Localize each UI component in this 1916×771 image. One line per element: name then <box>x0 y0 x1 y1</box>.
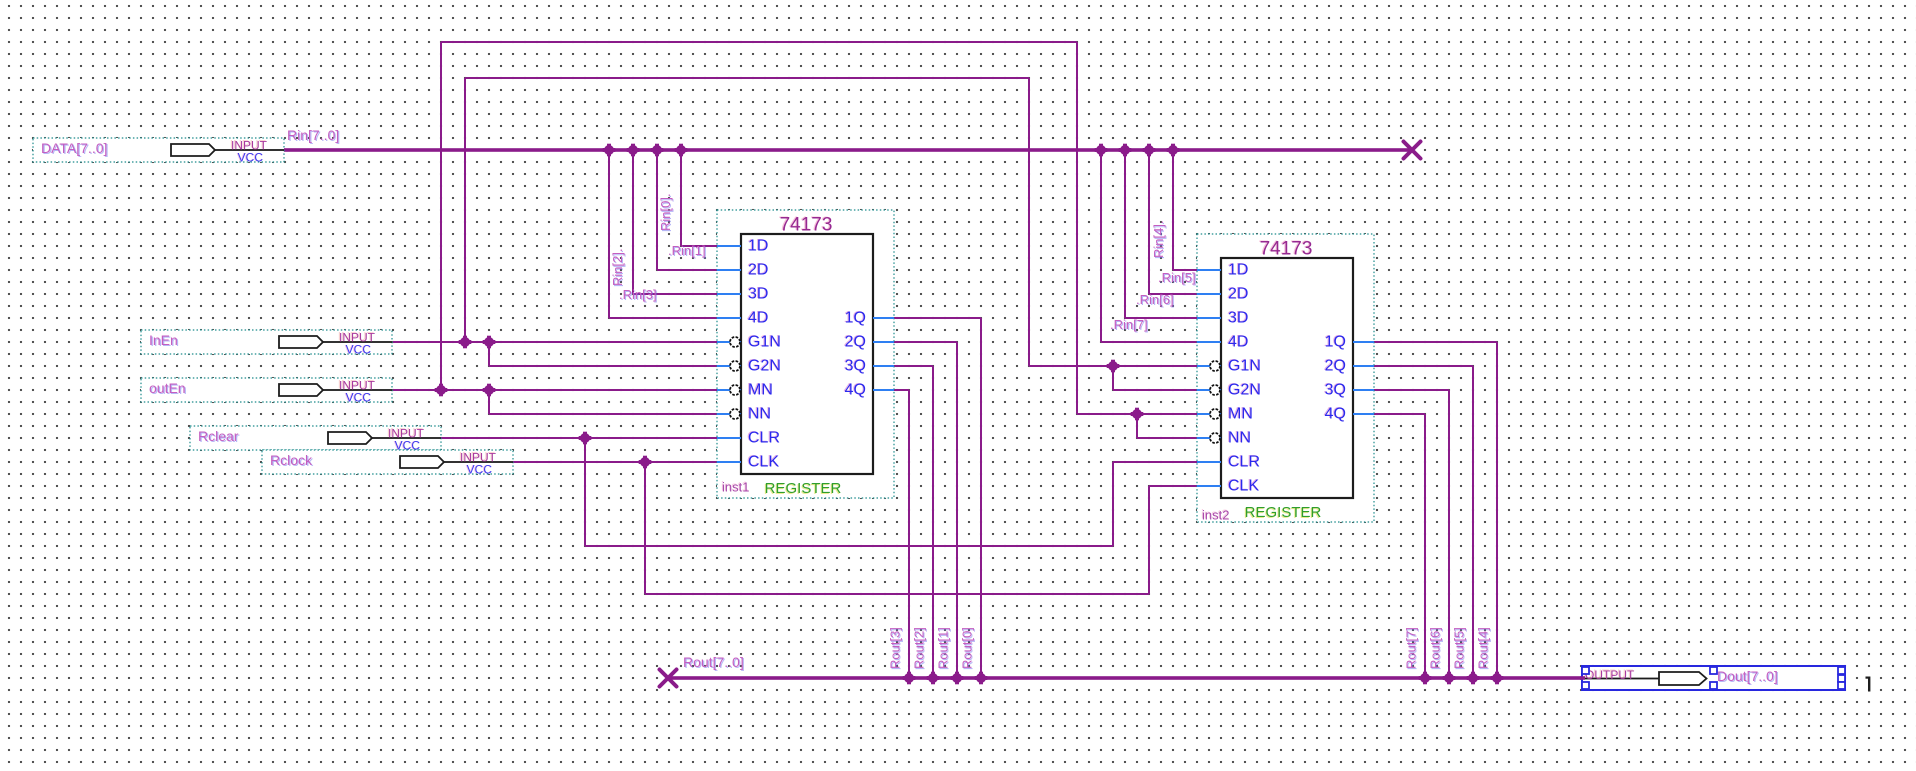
junction on Rout bus at x=957 <box>951 672 964 685</box>
dangling-bus X marker on Rin bus right end <box>1404 142 1421 159</box>
register U-inst1 74173 symbol boundary <box>717 210 894 498</box>
junction on Rin bus at x=657 <box>651 144 664 157</box>
junction on Rin bus at x=1101 <box>1095 144 1108 157</box>
register inst1 body <box>741 234 873 474</box>
wire label .Rin[6] <box>1136 292 1175 308</box>
svg-text:Rclear: Rclear <box>198 428 239 444</box>
bus name label Rout[7..0] <box>683 654 745 671</box>
register inst2 title 74173 <box>1258 238 1312 260</box>
svg-text:4Q: 4Q <box>845 382 866 399</box>
svg-text:outEn: outEn <box>149 380 186 396</box>
register inst1 pin 4Q stub <box>873 389 894 391</box>
junction on Rin bus at x=681 <box>675 144 688 157</box>
register inst1 pin label G2N <box>747 357 781 375</box>
register inst2 pin label 4Q <box>1324 405 1346 423</box>
junction on Rin bus at x=1125 <box>1119 144 1132 157</box>
register inst1 pin label CLK <box>747 453 780 471</box>
svg-text:Rout[5]: Rout[5] <box>1452 627 1467 669</box>
wire branch to reg2 G2N <box>1112 366 1197 391</box>
wire Rclock to reg1 CLK <box>512 461 717 463</box>
svg-text:VCC: VCC <box>238 151 264 165</box>
svg-text:.Rin[3]: .Rin[3] <box>619 287 657 302</box>
wire net A: outEn to reg2 MN, top route <box>440 41 1078 414</box>
register inst1 pin 3D stub <box>717 293 741 295</box>
junction at (441,390) <box>435 384 448 397</box>
svg-text:inst2: inst2 <box>1202 508 1229 523</box>
svg-text:REGISTER: REGISTER <box>765 480 842 497</box>
svg-text:Rout[2]: Rout[2] <box>912 627 927 669</box>
register inst2 pin 2D stub <box>1197 293 1221 295</box>
register inst2 type label REGISTER <box>1244 504 1322 522</box>
svg-text:DATA[7..0]: DATA[7..0] <box>41 140 107 156</box>
svg-text:CLR: CLR <box>1228 454 1260 471</box>
register inst2 instance name inst2 <box>1201 507 1229 523</box>
register inst2 body <box>1221 258 1353 498</box>
svg-text:.Rin[7]: .Rin[7] <box>1110 317 1148 332</box>
wire reg2 G1N horizontal <box>1029 365 1197 367</box>
svg-text:MN: MN <box>1228 406 1253 423</box>
register inst1 pin label 3D <box>747 285 769 303</box>
wire Rout[0] reg1 1Q to bus <box>873 317 982 678</box>
register inst1 pin CLK stub <box>717 461 741 463</box>
register inst2 pin label 2D <box>1227 285 1249 303</box>
svg-text:CLK: CLK <box>748 454 779 471</box>
register inst1 pin label 2Q <box>844 333 866 351</box>
svg-text:Rout[7..0]: Rout[7..0] <box>683 654 744 670</box>
junction on Rout bus at x=1449 <box>1443 672 1456 685</box>
register inst2 pin label 2Q <box>1324 357 1346 375</box>
junction at (585,438) <box>579 432 592 445</box>
wire Rout[3] reg1 4Q to bus <box>873 389 910 678</box>
register inst1 pin 3Q stub <box>873 365 894 367</box>
svg-text:VCC: VCC <box>467 463 493 477</box>
junction on Rin bus at x=1149 <box>1143 144 1156 157</box>
svg-text:G1N: G1N <box>1228 358 1261 375</box>
junction on Rin bus at x=633 <box>627 144 640 157</box>
register inst1 pin label 4D <box>747 309 769 327</box>
svg-text:3D: 3D <box>748 286 768 303</box>
svg-text:1Q: 1Q <box>845 310 866 327</box>
svg-text:CLR: CLR <box>748 430 780 447</box>
input pin InEn <box>141 330 392 357</box>
wire label Rout[5] rotated <box>1452 627 1468 670</box>
svg-text:2D: 2D <box>748 262 768 279</box>
svg-text:Rout[3]: Rout[3] <box>888 627 903 669</box>
input pin Rclock <box>262 450 513 477</box>
wire outEn to reg1 MN <box>393 389 717 391</box>
wire label Rin[4]. rotated <box>1151 220 1167 259</box>
svg-text:Rout[0]: Rout[0] <box>960 627 975 669</box>
wire Rclear to reg1 CLR <box>440 437 717 439</box>
svg-text:InEn: InEn <box>149 332 178 348</box>
wire net B: InEn to reg2 G1N, top route <box>464 77 1030 366</box>
wire Rclear to reg2 CLR route <box>584 438 1197 547</box>
svg-text:74173: 74173 <box>780 215 833 236</box>
register inst1 pin NN stub <box>717 409 741 419</box>
wire label Rout[3] rotated <box>888 627 904 670</box>
wire branch to reg2 NN <box>1136 414 1197 439</box>
wire Rout[4] reg2 1Q to bus <box>1353 341 1498 678</box>
wire label .Rin[7] <box>1110 317 1149 333</box>
register inst2 pin label G2N <box>1227 381 1261 399</box>
input pin DATA[7..0] <box>33 138 284 165</box>
register inst2 pin CLR stub <box>1197 461 1221 463</box>
wire Rout[7] reg2 4Q to bus <box>1353 413 1426 678</box>
wire Rclock to reg2 CLK route <box>644 462 1197 595</box>
output pin label OUTPUT <box>1584 667 1635 682</box>
register inst1 pin 1Q stub <box>873 317 894 319</box>
output pin Dout[7..0] (selected) <box>1582 666 1845 690</box>
wire Rin[0] bus to reg1 2D <box>656 150 717 271</box>
wire Rout[5] reg2 2Q to bus <box>1353 365 1474 678</box>
register inst1 pin G1N stub <box>717 337 741 347</box>
register inst2 pin G1N stub <box>1197 361 1221 371</box>
wire Rout[2] reg1 3Q to bus <box>873 365 934 678</box>
register inst1 title 74173 <box>778 214 832 236</box>
junction at (645,462) <box>639 456 652 469</box>
register inst1 pin label 1Q <box>844 309 866 327</box>
svg-text:4Q: 4Q <box>1325 406 1346 423</box>
svg-text:2Q: 2Q <box>845 334 866 351</box>
register inst2 pin label G1N <box>1227 357 1261 375</box>
wire Rin[3] bus to reg1 3D <box>632 150 717 295</box>
wire branch to reg1 G2N <box>488 342 717 367</box>
svg-text:74173: 74173 <box>1260 239 1313 260</box>
register inst1 pin label MN <box>747 381 773 399</box>
svg-text:VCC: VCC <box>346 343 372 357</box>
svg-text:1Q: 1Q <box>1325 334 1346 351</box>
register inst2 pin 2Q stub <box>1353 365 1374 367</box>
svg-text:VCC: VCC <box>346 391 372 405</box>
svg-text:4D: 4D <box>1228 334 1248 351</box>
register inst1 pin 2D stub <box>717 269 741 271</box>
register inst2 pin MN stub <box>1197 409 1221 419</box>
register inst2 pin label NN <box>1227 429 1251 447</box>
bus overlap nub at output pin <box>1580 676 1585 680</box>
svg-text:Rin[0].: Rin[0]. <box>658 193 673 231</box>
register inst1 pin label G1N <box>747 333 781 351</box>
wire label Rin[2]. rotated <box>610 248 626 287</box>
svg-text:Rout[6]: Rout[6] <box>1428 627 1443 669</box>
wire label Rout[4] rotated <box>1476 627 1492 670</box>
junction at (465,342) <box>459 336 472 349</box>
register inst2 pin CLK stub <box>1197 485 1221 487</box>
wire label .Rin[1] <box>668 243 707 259</box>
svg-text:MN: MN <box>748 382 773 399</box>
register inst1 pin MN stub <box>717 385 741 395</box>
svg-text:G2N: G2N <box>748 358 781 375</box>
svg-text:CLK: CLK <box>1228 478 1259 495</box>
input pin Rclear <box>190 426 441 453</box>
svg-text:4D: 4D <box>748 310 768 327</box>
register inst2 pin label CLK <box>1227 477 1260 495</box>
wire Rin[2] bus to reg1 4D <box>608 150 717 319</box>
wire Rout[1] reg1 2Q to bus <box>873 341 958 678</box>
junction on Rin bus at x=609 <box>603 144 616 157</box>
junction at (489,390) <box>483 384 496 397</box>
wire Rin[7] bus to reg2 4D <box>1100 150 1197 343</box>
bus name label Rin[7..0] <box>287 127 340 144</box>
wire label Rout[6] rotated <box>1428 627 1444 670</box>
svg-text:Dout[7..0]: Dout[7..0] <box>1717 668 1778 684</box>
svg-text:3Q: 3Q <box>1325 382 1346 399</box>
register inst1 pin label CLR <box>747 429 780 447</box>
svg-text:2Q: 2Q <box>1325 358 1346 375</box>
svg-text:NN: NN <box>1228 430 1251 447</box>
svg-text:2D: 2D <box>1228 286 1248 303</box>
svg-text:NN: NN <box>748 406 771 423</box>
wire label Rout[1] rotated <box>936 627 952 670</box>
wire Rin[4] bus to reg2 2D <box>1148 150 1197 295</box>
junction on Rin bus at x=1173 <box>1167 144 1180 157</box>
register inst1 pin 2Q stub <box>873 341 894 343</box>
junction on Rout bus at x=909 <box>903 672 916 685</box>
junction on Rout bus at x=981 <box>975 672 988 685</box>
register inst2 pin label 3D <box>1227 309 1249 327</box>
wire Rin[1] bus to reg1 1D <box>680 150 717 247</box>
bus Rout[7..0] (bottom) <box>666 676 1582 680</box>
wire label Rin[0]. rotated <box>658 193 674 232</box>
register inst1 pin label 3Q <box>844 357 866 375</box>
junction on Rout bus at x=1473 <box>1467 672 1480 685</box>
register inst2 pin 4D stub <box>1197 341 1221 343</box>
svg-text:G2N: G2N <box>1228 382 1261 399</box>
register inst2 pin 3D stub <box>1197 317 1221 319</box>
junction on Rout bus at x=1497 <box>1491 672 1504 685</box>
svg-text:Rout[7]: Rout[7] <box>1404 627 1419 669</box>
svg-text:1D: 1D <box>748 238 768 255</box>
svg-text:.Rin[1]: .Rin[1] <box>668 243 706 258</box>
svg-text:OUTPUT: OUTPUT <box>1585 668 1635 682</box>
register inst2 pin 1D stub <box>1197 269 1221 271</box>
junction at (1113,366) <box>1107 360 1120 373</box>
register inst1 pin label 2D <box>747 261 769 279</box>
svg-text:Rout[1]: Rout[1] <box>936 627 951 669</box>
svg-text:Rin[7..0]: Rin[7..0] <box>287 127 339 143</box>
output pin name Dout[7..0] <box>1717 668 1779 685</box>
wire InEn to reg1 G1N <box>393 341 717 343</box>
svg-text:1D: 1D <box>1228 262 1248 279</box>
register inst1 pin label NN <box>747 405 771 423</box>
wire label .Rin[5] <box>1158 270 1197 286</box>
wire label Rout[0] rotated <box>960 627 976 670</box>
register inst1 pin 4D stub <box>717 317 741 319</box>
svg-text:3Q: 3Q <box>845 358 866 375</box>
register inst2 pin label CLR <box>1227 453 1260 471</box>
register inst2 pin 3Q stub <box>1353 389 1374 391</box>
svg-text:REGISTER: REGISTER <box>1245 504 1322 521</box>
wire Rin[6] bus to reg2 3D <box>1124 150 1197 319</box>
wire label Rout[7] rotated <box>1404 627 1420 670</box>
wire label .Rin[3] <box>619 287 658 303</box>
wire reg2 MN horizontal <box>1077 413 1197 415</box>
register inst1 pin 1D stub <box>717 245 741 247</box>
input pin outEn <box>141 378 392 405</box>
register inst2 pin G2N stub <box>1197 385 1221 395</box>
dangling-bus X marker on Rout bus left end <box>660 670 677 687</box>
svg-text:3D: 3D <box>1228 310 1248 327</box>
register inst1 instance name inst1 <box>721 479 749 495</box>
register U-inst2 74173 symbol boundary <box>1197 234 1374 522</box>
svg-text:G1N: G1N <box>748 334 781 351</box>
register inst2 pin label 4D <box>1227 333 1249 351</box>
register inst2 pin 1Q stub <box>1353 341 1374 343</box>
bus Rin[7..0] (DATA bus, top) <box>284 148 1412 152</box>
register inst2 pin label 1Q <box>1324 333 1346 351</box>
svg-text:Rin[4].: Rin[4]. <box>1151 220 1166 258</box>
wire branch to reg1 NN <box>488 390 717 415</box>
register inst2 pin NN stub <box>1197 433 1221 443</box>
register inst1 pin G2N stub <box>717 361 741 371</box>
register inst1 type label REGISTER <box>764 480 842 498</box>
svg-text:.Rin[6]: .Rin[6] <box>1136 292 1174 307</box>
junction on Rout bus at x=1425 <box>1419 672 1432 685</box>
register inst1 pin label 1D <box>747 237 769 255</box>
register inst2 pin label 1D <box>1227 261 1249 279</box>
junction at (1137,414) <box>1131 408 1144 421</box>
wire Rout[6] reg2 3Q to bus <box>1353 389 1450 678</box>
svg-text:.Rin[5]: .Rin[5] <box>1158 270 1196 285</box>
svg-text:Rout[4]: Rout[4] <box>1476 627 1491 669</box>
register inst1 pin label 4Q <box>844 381 866 399</box>
svg-text:Rclock: Rclock <box>270 452 313 468</box>
wire label Rout[2] rotated <box>912 627 928 670</box>
svg-text:Rin[2].: Rin[2]. <box>610 248 625 286</box>
register inst2 pin label MN <box>1227 405 1253 423</box>
text cursor <box>1866 677 1871 692</box>
svg-text:inst1: inst1 <box>722 480 749 495</box>
wire Rin[5] bus to reg2 1D <box>1172 150 1197 271</box>
junction at (489,342) <box>483 336 496 349</box>
selection handles of output pin <box>1582 667 1845 689</box>
register inst1 pin CLR stub <box>717 437 741 439</box>
junction on Rout bus at x=933 <box>927 672 940 685</box>
register inst2 pin 4Q stub <box>1353 413 1374 415</box>
register inst2 pin label 3Q <box>1324 381 1346 399</box>
